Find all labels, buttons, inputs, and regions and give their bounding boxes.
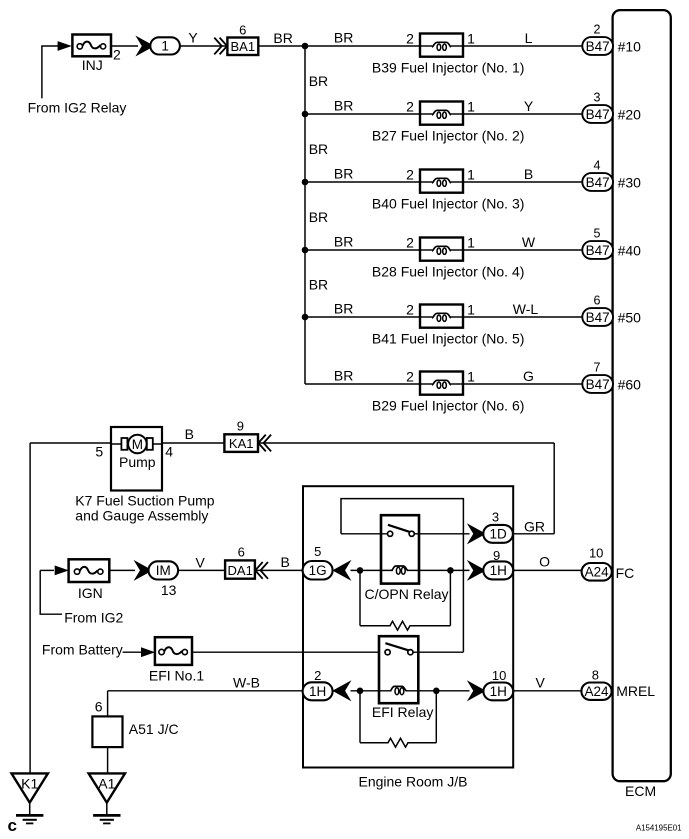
svg-text:G: G (523, 368, 534, 384)
svg-text:6: 6 (238, 544, 245, 559)
arrow into INJ fuse (58, 41, 72, 51)
wire IG2 to INJ fuse arrow (41, 45, 58, 47)
svg-text:V: V (196, 554, 206, 570)
svg-text:#30: #30 (618, 174, 642, 190)
bus junction node row 3 (302, 179, 309, 186)
svg-text:6: 6 (239, 22, 246, 37)
wire K1 riser to pump box (30, 442, 111, 444)
svg-text:ECM: ECM (625, 783, 656, 799)
wire DA1 to 1G (255, 569, 303, 571)
connector oval 1 (150, 37, 180, 54)
svg-text:BA1: BA1 (231, 39, 256, 54)
svg-text:Pump: Pump (119, 454, 156, 470)
wire bus to injector 4 (305, 249, 420, 251)
wire through injector 6 box left (420, 383, 432, 385)
connector A24 FC (582, 563, 612, 581)
wire EFI bypass right (435, 691, 437, 743)
svg-text:FC: FC (616, 565, 635, 581)
wire through injector 4 box right (451, 249, 464, 251)
injector 1 coil (432, 42, 451, 50)
arrow into EFI No.1 fuse (141, 647, 155, 657)
bus junction node row 5 (302, 314, 309, 321)
svg-text:C/OPN Relay: C/OPN Relay (365, 586, 449, 602)
connector 1H pin 10 (483, 683, 513, 701)
svg-text:K1: K1 (21, 776, 38, 792)
connector 1D (483, 525, 513, 543)
connector B47 row 2 (582, 105, 613, 123)
svg-text:B27 Fuel Injector (No. 2): B27 Fuel Injector (No. 2) (372, 128, 525, 144)
svg-text:4: 4 (165, 444, 173, 460)
injector 2 coil (432, 110, 451, 118)
wire through injector 3 box right (451, 181, 464, 183)
svg-text:5: 5 (594, 226, 601, 240)
svg-text:B47: B47 (586, 107, 610, 122)
wire through injector 1 box right (451, 45, 464, 47)
wire BA1 to BR bus (258, 45, 305, 47)
svg-text:From Battery: From Battery (42, 642, 123, 658)
Engine Room J/B box (303, 486, 513, 767)
junction connector KA1 box (224, 434, 258, 452)
wire 1H10 to A24 MREL (513, 690, 581, 692)
injector 2 box (420, 102, 463, 125)
ground triangle A1 (89, 773, 125, 802)
C/OPN relay switch contacts (388, 525, 415, 537)
svg-text:#50: #50 (618, 309, 642, 325)
wire through injector 5 box left (420, 316, 432, 318)
svg-text:6: 6 (594, 293, 601, 307)
connector oval IM (149, 561, 179, 579)
junction connector DA1 box (225, 560, 255, 578)
wire W-B riser to A51 (107, 691, 109, 717)
connector B47 row 1 (582, 37, 613, 55)
svg-text:BR: BR (334, 30, 353, 46)
wire loop to C/OPN switch (341, 533, 388, 535)
wire From IG2 stub (40, 570, 62, 614)
wire bus to injector 2 (305, 113, 420, 115)
injector 6 box (420, 372, 463, 395)
svg-text:1: 1 (467, 301, 475, 317)
node EFI coil right (433, 688, 440, 695)
svg-text:1G: 1G (309, 563, 327, 578)
svg-text:B41 Fuel Injector (No. 5): B41 Fuel Injector (No. 5) (372, 331, 525, 347)
ECM connector box (613, 10, 671, 781)
svg-text:GR: GR (524, 518, 545, 534)
svg-text:2: 2 (594, 22, 601, 36)
wire injector 2 to ECM (463, 113, 583, 115)
bus junction node row 1 (302, 43, 309, 50)
wire through injector 1 box left (420, 45, 432, 47)
fuse EFI No.1 (155, 637, 192, 665)
svg-text:O: O (539, 554, 550, 570)
EFI relay coil (390, 686, 407, 694)
wire IM to DA1 (178, 569, 225, 571)
injector 3 box (420, 170, 463, 193)
wire EFI bypass left (359, 691, 361, 743)
svg-text:2: 2 (406, 98, 414, 114)
svg-text:BR: BR (334, 166, 353, 182)
junction connector BA1 box (227, 38, 258, 56)
bus junction node row 2 (302, 111, 309, 118)
BR bus vertical wire (304, 46, 306, 384)
wire injector 3 to ECM (463, 181, 583, 183)
connector chevrons into BA1 (214, 38, 227, 55)
wire C/OPN bypass right (449, 570, 451, 625)
svg-text:KA1: KA1 (229, 436, 254, 451)
svg-text:2: 2 (314, 668, 321, 683)
svg-text:B39 Fuel Injector (No. 1): B39 Fuel Injector (No. 1) (372, 60, 525, 76)
injector 3 coil (432, 178, 451, 186)
connector 1H pin 9 (483, 561, 513, 579)
svg-text:A154195E01: A154195E01 (636, 823, 682, 832)
svg-text:1: 1 (467, 166, 475, 182)
svg-text:BR: BR (334, 301, 353, 317)
svg-text:7: 7 (594, 360, 601, 374)
injector 1 box (420, 34, 463, 57)
svg-text:1H: 1H (490, 684, 507, 699)
svg-text:1H: 1H (309, 684, 326, 699)
svg-text:EFI No.1: EFI No.1 (149, 667, 204, 683)
svg-text:#10: #10 (618, 38, 642, 54)
wire INJ fuse to connector arrow (111, 45, 138, 47)
injector 5 box (420, 305, 463, 328)
svg-text:2: 2 (406, 234, 414, 250)
svg-text:INJ: INJ (82, 57, 103, 73)
svg-text:1: 1 (467, 234, 475, 250)
wire bus to injector 6 (305, 383, 420, 385)
node C/OPN coil right (447, 567, 454, 574)
wire bus to injector 5 (305, 316, 420, 318)
fuel pump assembly box K7 (111, 427, 162, 491)
wire bus to injector 1 (305, 45, 420, 47)
connector arrow into 1D (470, 526, 484, 541)
svg-text:BR: BR (309, 73, 328, 89)
svg-text:8: 8 (592, 667, 599, 682)
svg-text:B: B (185, 426, 194, 442)
ground symbol K1 (16, 803, 43, 824)
svg-text:A1: A1 (98, 776, 115, 792)
svg-text:B47: B47 (586, 39, 610, 54)
svg-text:BR: BR (334, 98, 353, 114)
wire EFI switch feed loop to C/OPN switch (341, 499, 463, 653)
svg-text:MREL: MREL (616, 683, 655, 699)
wire through injector 2 box left (420, 113, 432, 115)
connector arrow into 1H pin 9 (470, 563, 484, 578)
svg-text:and Gauge Assembly: and Gauge Assembly (75, 507, 208, 523)
arrow into IGN fuse (55, 566, 69, 576)
svg-text:B47: B47 (586, 377, 610, 392)
connector arrow into oval 1 (138, 38, 152, 53)
svg-text:1H: 1H (490, 563, 507, 578)
wire through injector 4 box left (420, 249, 432, 251)
relay box EFI (379, 636, 418, 703)
connector arrow out of 1H pin 2 (335, 683, 349, 698)
svg-text:W: W (522, 234, 536, 250)
wire EFI switch to loop (413, 651, 463, 653)
EFI relay switch contacts (385, 643, 413, 655)
svg-text:A24: A24 (585, 565, 610, 580)
svg-text:Y: Y (524, 98, 534, 114)
svg-text:BR: BR (334, 368, 353, 384)
connector B47 row 5 (582, 308, 613, 326)
svg-text:1: 1 (467, 30, 475, 46)
svg-text:W-B: W-B (233, 674, 260, 690)
wire W-B from A51 to 1H2 (108, 690, 303, 692)
wire pump to ground K1 riser (29, 443, 31, 774)
svg-text:B: B (524, 166, 533, 182)
wire from IG2 relay riser (41, 46, 43, 98)
svg-text:10: 10 (589, 546, 603, 561)
svg-text:c: c (8, 816, 17, 835)
svg-text:From IG2 Relay: From IG2 Relay (28, 99, 127, 115)
svg-text:B40 Fuel Injector (No. 3): B40 Fuel Injector (No. 3) (372, 196, 525, 212)
svg-text:2: 2 (113, 47, 121, 63)
svg-text:W-L: W-L (513, 301, 539, 317)
wire bus to injector 3 (305, 181, 420, 183)
svg-text:6: 6 (95, 699, 103, 715)
svg-text:B28 Fuel Injector (No. 4): B28 Fuel Injector (No. 4) (372, 264, 525, 280)
wire 1H9 to A24 FC (513, 569, 581, 571)
relay box C/OPN (381, 515, 419, 583)
wire 1H2 arrow to EFI coil (351, 690, 392, 692)
svg-text:5: 5 (314, 544, 321, 559)
svg-text:Y: Y (188, 29, 198, 45)
ground triangle K1 (12, 773, 48, 802)
svg-text:2: 2 (406, 166, 414, 182)
svg-text:Engine Room J/B: Engine Room J/B (359, 773, 468, 789)
connector B47 row 6 (582, 375, 613, 393)
wire KA1 to GR riser (258, 442, 554, 444)
svg-text:1: 1 (467, 98, 475, 114)
wire through injector 2 box right (451, 113, 464, 115)
junction block A51 J/C box (92, 716, 122, 747)
svg-text:BR: BR (334, 234, 353, 250)
wire EFI fuse to EFI relay switch (192, 651, 385, 653)
bus junction node row 4 (302, 247, 309, 254)
node EFI coil left (357, 688, 364, 695)
svg-text:#20: #20 (618, 106, 642, 122)
wire battery to EFI fuse (123, 651, 142, 653)
node C/OPN coil left (357, 567, 364, 574)
wire GR riser down to 1D row (553, 443, 555, 534)
svg-text:BR: BR (309, 277, 328, 293)
wire GR to 1D connector (513, 533, 554, 535)
svg-text:BR: BR (273, 30, 292, 46)
svg-text:3: 3 (594, 90, 601, 104)
wire pump to KA1 (162, 442, 224, 444)
wire EFI coil to 1H10 arrow (406, 690, 470, 692)
injector 5 coil (432, 313, 451, 321)
svg-text:L: L (525, 30, 533, 46)
svg-text:1: 1 (161, 39, 169, 54)
connector arrow out of 1G (335, 563, 349, 578)
svg-text:BR: BR (309, 209, 328, 225)
svg-text:A51 J/C: A51 J/C (129, 721, 179, 737)
resistor C/OPN relay (360, 621, 450, 630)
fuse INJ (72, 35, 111, 57)
wire oval 1 to BA1 (180, 45, 228, 47)
svg-text:K7 Fuel Suction Pump: K7 Fuel Suction Pump (75, 492, 215, 508)
svg-text:BR: BR (309, 141, 328, 157)
wire 1G arrow to coil (351, 569, 394, 571)
svg-text:2: 2 (406, 368, 414, 384)
svg-text:From IG2: From IG2 (64, 609, 123, 625)
connector chevrons after DA1 (255, 562, 268, 579)
wire A51 to A1 ground (107, 747, 109, 773)
ground symbol A1 (93, 803, 120, 824)
svg-text:B: B (281, 554, 290, 570)
svg-text:IM: IM (156, 563, 171, 578)
svg-text:M: M (132, 437, 143, 452)
wire injector 4 to ECM (463, 249, 583, 251)
svg-text:1D: 1D (489, 527, 507, 542)
svg-text:DA1: DA1 (228, 563, 253, 578)
svg-text:13: 13 (161, 582, 177, 598)
fuse IGN (69, 559, 110, 582)
wire through injector 3 box left (420, 181, 432, 183)
svg-text:5: 5 (95, 444, 103, 460)
svg-text:EFI Relay: EFI Relay (372, 704, 433, 720)
svg-text:10: 10 (492, 668, 506, 683)
svg-text:2: 2 (406, 301, 414, 317)
connector arrow into 1H pin 10 (470, 683, 484, 698)
svg-text:B47: B47 (586, 310, 610, 325)
connector B47 row 4 (582, 241, 613, 259)
svg-text:IGN: IGN (78, 585, 103, 601)
injector 6 coil (432, 380, 451, 388)
svg-text:9: 9 (237, 418, 244, 433)
pump motor M symbol (111, 435, 162, 454)
wire injector 6 to ECM (463, 383, 583, 385)
svg-text:#60: #60 (618, 376, 642, 392)
svg-text:V: V (536, 675, 546, 691)
connector arrow into IM (137, 563, 151, 578)
wire through injector 5 box right (451, 316, 464, 318)
connector 1H pin 2 (303, 682, 333, 700)
wire injector 1 to ECM (463, 45, 583, 47)
svg-text:A24: A24 (584, 684, 609, 699)
svg-text:3: 3 (492, 509, 499, 524)
connector B47 row 3 (582, 173, 613, 191)
connector 1G (303, 561, 333, 580)
resistor EFI relay (360, 738, 436, 747)
connector A24 MREL (581, 683, 611, 700)
wire injector 5 to ECM (463, 316, 583, 318)
wire through injector 6 box right (451, 383, 464, 385)
svg-text:2: 2 (406, 30, 414, 46)
C/OPN relay coil (391, 566, 408, 574)
svg-text:1: 1 (467, 368, 475, 384)
svg-text:B47: B47 (586, 243, 610, 258)
wire C/OPN bypass left (359, 570, 361, 625)
svg-text:B47: B47 (586, 175, 610, 190)
injector 4 coil (432, 246, 451, 254)
injector 4 box (420, 238, 463, 261)
svg-text:B29 Fuel Injector (No. 6): B29 Fuel Injector (No. 6) (372, 398, 525, 414)
wire C/OPN switch to 1D (414, 533, 469, 535)
connector chevrons after KA1 (258, 435, 271, 452)
svg-text:4: 4 (594, 158, 601, 172)
svg-text:#40: #40 (618, 242, 642, 258)
wire IG2 to IGN fuse (40, 569, 54, 571)
wire IGN fuse to IM arrow (109, 569, 135, 571)
wire coil to 1H pin 9 arrow (407, 569, 470, 571)
